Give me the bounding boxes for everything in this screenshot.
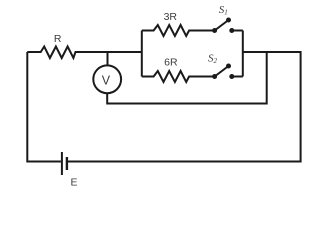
wire: right bar of parallel section: [242, 31, 244, 77]
svg-text:E: E: [70, 176, 77, 188]
svg-text:6R: 6R: [164, 57, 178, 69]
battery E short plate: [66, 157, 68, 170]
resistor 3R branch (zigzag): [142, 25, 214, 36]
node: voltmeter tap wire: [107, 52, 109, 66]
wire: bottom wire, right vertical, mid horizontal to right bar: [68, 52, 301, 162]
wire: S2 right contact to right bar: [232, 76, 243, 78]
node: S2 right contact dot: [229, 74, 234, 79]
wire: left bar of parallel section: [141, 31, 143, 77]
node: S2 arm tip dot: [226, 64, 231, 69]
wire: left vertical + bottom-left segment to battery: [27, 52, 61, 162]
resistor 6R branch (zigzag): [142, 71, 214, 82]
wire: voltmeter bottom, across, up to mid node: [107, 52, 267, 104]
switch S2 arm: [215, 66, 229, 77]
svg-text:V: V: [102, 74, 111, 88]
node: S2 left contact dot: [212, 74, 217, 79]
svg-text:R: R: [54, 33, 62, 45]
svg-text:3R: 3R: [164, 11, 178, 23]
battery E long plate: [61, 152, 63, 175]
switch S1 arm: [215, 20, 229, 31]
node: S1 arm tip dot: [226, 18, 231, 23]
node: S1 right contact dot: [229, 28, 234, 33]
resistor R on top wire (zigzag): [27, 47, 142, 59]
voltmeter U1 circle: [93, 65, 121, 93]
node: S1 left contact dot: [212, 28, 217, 33]
wire: S1 right contact to right bar: [232, 30, 243, 32]
